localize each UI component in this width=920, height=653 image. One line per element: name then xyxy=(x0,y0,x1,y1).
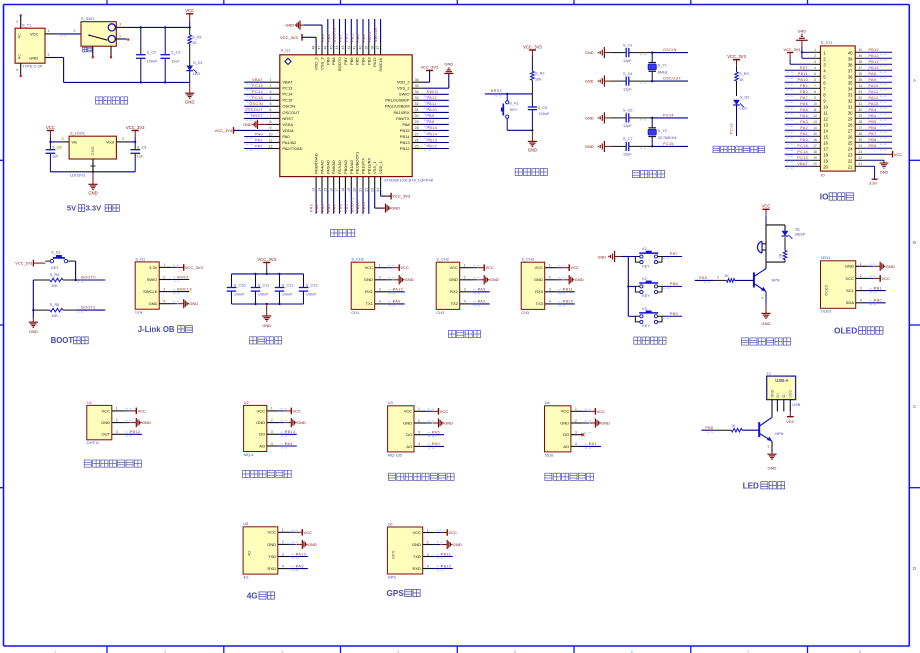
connector U4 xyxy=(545,400,571,457)
svg-text:GND: GND xyxy=(297,420,306,425)
svg-text:4: 4 xyxy=(549,300,551,304)
svg-text:SDA: SDA xyxy=(846,300,855,305)
svg-text:PA11/USBDM: PA11/USBDM xyxy=(385,104,410,109)
T1 bottom pin (unconnected) xyxy=(16,63,21,77)
svg-text:VCC: VCC xyxy=(762,204,771,209)
svg-text:10K: 10K xyxy=(51,314,58,318)
svg-text:43: 43 xyxy=(341,46,345,50)
title 晶振电路 xyxy=(632,170,664,177)
svg-text:28: 28 xyxy=(859,120,863,124)
svg-text:S_R1: S_R1 xyxy=(192,35,202,39)
capacitor S_C10 xyxy=(227,274,246,304)
ground xyxy=(435,540,462,549)
wire node PA10 xyxy=(387,288,405,295)
svg-text:VCC: VCC xyxy=(485,265,494,270)
svg-text:1K: 1K xyxy=(739,78,744,82)
svg-text:VCC: VCC xyxy=(561,409,570,414)
wire node PC13 xyxy=(244,84,266,91)
wire node PB0 xyxy=(868,299,886,306)
svg-text:19: 19 xyxy=(347,188,351,192)
svg-text:34: 34 xyxy=(848,86,853,91)
svg-text:VBAT: VBAT xyxy=(797,162,808,166)
wire node PC14 xyxy=(640,113,688,120)
svg-text:OSCOUT: OSCOUT xyxy=(663,77,682,81)
svg-text:PB1: PB1 xyxy=(345,204,349,212)
svg-text:8: 8 xyxy=(270,120,272,124)
svg-text:36: 36 xyxy=(848,74,853,79)
svg-text:22: 22 xyxy=(859,156,863,160)
svg-text:DHT11: DHT11 xyxy=(87,440,99,445)
title 滤波电路 xyxy=(250,337,282,344)
S_CH3 pin 4 TX3 xyxy=(545,300,565,304)
svg-text:25: 25 xyxy=(848,140,853,145)
svg-text:VCC: VCC xyxy=(894,152,903,157)
title IO拓展口 xyxy=(820,192,854,202)
svg-text:PB12: PB12 xyxy=(400,146,411,151)
svg-text:14: 14 xyxy=(823,128,828,133)
wire node PA4 xyxy=(315,189,322,214)
svg-text:PB11: PB11 xyxy=(798,72,808,76)
wire node PB13 xyxy=(423,138,449,145)
wire reset bottom rail xyxy=(507,129,533,131)
wire node PA2 xyxy=(472,300,490,307)
svg-text:B: B xyxy=(913,240,916,245)
svg-text:3: 3 xyxy=(549,288,551,292)
svg-text:31: 31 xyxy=(859,102,863,106)
svg-text:NC: NC xyxy=(17,54,21,60)
svg-text:100nF: 100nF xyxy=(282,293,293,297)
wire alarm top node xyxy=(766,225,785,244)
wire VDD_1 to VCC_3V3 xyxy=(381,189,411,199)
svg-text:14: 14 xyxy=(318,188,322,192)
ground xyxy=(290,540,317,549)
wire node PC15 xyxy=(244,96,266,103)
svg-text:e: e xyxy=(16,68,18,72)
svg-text:GND: GND xyxy=(391,206,400,211)
svg-text:33: 33 xyxy=(848,92,853,97)
svg-text:OSCIN: OSCIN xyxy=(282,104,295,109)
svg-text:PA1: PA1 xyxy=(255,138,263,142)
svg-text:12pF: 12pF xyxy=(623,124,632,128)
svg-text:PC15: PC15 xyxy=(797,144,808,148)
power VCC xyxy=(279,408,301,415)
wire node PA10 xyxy=(290,552,308,559)
svg-text:PC13: PC13 xyxy=(730,123,734,134)
svg-text:RXD: RXD xyxy=(268,566,277,571)
wire node PB7 xyxy=(662,252,682,259)
svg-text:45: 45 xyxy=(329,46,333,50)
svg-text:24: 24 xyxy=(859,144,863,148)
power VCC (alarm) xyxy=(762,204,771,225)
svg-text:15: 15 xyxy=(813,132,817,136)
key S_K2 xyxy=(45,250,75,270)
svg-text:GND: GND xyxy=(449,277,458,282)
wire node PC13 xyxy=(730,105,737,136)
transistor Q1 NPN xyxy=(754,269,780,292)
svg-text:3: 3 xyxy=(418,431,420,435)
title 主芯片 xyxy=(331,229,355,236)
svg-text:DO: DO xyxy=(259,432,265,437)
svg-text:1: 1 xyxy=(814,48,816,52)
connector U5 xyxy=(243,521,278,579)
wire node PB13 xyxy=(865,54,892,61)
wire node PB7 xyxy=(339,19,346,44)
svg-text:PB3: PB3 xyxy=(362,34,366,42)
svg-text:U5: U5 xyxy=(243,521,248,526)
svg-text:12pF: 12pF xyxy=(623,87,632,91)
svg-text:3: 3 xyxy=(163,287,165,291)
svg-text:J-Link OB: J-Link OB xyxy=(138,325,175,334)
power VCC xyxy=(868,275,890,282)
svg-text:VCC_3V3: VCC_3V3 xyxy=(392,194,411,199)
svg-text:6: 6 xyxy=(270,108,272,112)
svg-text:S_C2: S_C2 xyxy=(147,51,157,55)
wire node PB15 xyxy=(865,66,892,73)
wire LDO GND to rail xyxy=(50,159,135,173)
wire node PB1 xyxy=(345,189,352,214)
svg-text:10: 10 xyxy=(823,104,828,109)
svg-text:PB11: PB11 xyxy=(441,552,451,556)
svg-text:GND: GND xyxy=(285,23,294,28)
wire node PA2 xyxy=(244,144,266,151)
svg-text:7: 7 xyxy=(270,114,272,118)
U4 pin 2 GND xyxy=(571,419,591,423)
title 串口电路 xyxy=(448,330,480,337)
svg-text:S_K1: S_K1 xyxy=(509,102,518,106)
svg-text:TXD: TXD xyxy=(268,554,276,559)
title 5V转3.3V电路 xyxy=(67,204,119,213)
svg-text:PA2: PA2 xyxy=(478,300,486,304)
svg-text:10K: 10K xyxy=(535,77,542,81)
wire node PA9 xyxy=(387,300,405,307)
svg-text:VCC: VCC xyxy=(534,265,543,270)
wire VSS_1 to GND xyxy=(375,189,400,213)
svg-text:GND: GND xyxy=(585,80,594,84)
power VCC xyxy=(583,408,605,415)
wire node PB12 xyxy=(865,48,892,55)
svg-text:VSS_3: VSS_3 xyxy=(320,57,325,70)
power VCC xyxy=(472,264,494,271)
svg-text:PA3: PA3 xyxy=(800,120,808,124)
resistor (alarm LED) xyxy=(779,237,787,262)
svg-text:PA4: PA4 xyxy=(315,204,319,212)
svg-text:PB6: PB6 xyxy=(345,34,349,42)
svg-text:VCC_3V3: VCC_3V3 xyxy=(185,265,204,270)
wire key to BOOT0 row xyxy=(75,261,77,281)
svg-text:VCC: VCC xyxy=(257,408,266,413)
svg-text:PB12: PB12 xyxy=(130,430,141,434)
svg-text:VCC: VCC xyxy=(185,8,194,13)
svg-text:PA5: PA5 xyxy=(432,431,440,435)
svg-text:VCC: VCC xyxy=(293,408,302,413)
svg-text:PA1/AD: PA1/AD xyxy=(282,140,296,145)
wire node PA1 xyxy=(244,138,266,145)
svg-text:15: 15 xyxy=(323,188,327,192)
connector U1 xyxy=(87,400,112,445)
wire node PB9 xyxy=(662,312,682,319)
svg-text:S_ST1: S_ST1 xyxy=(821,40,833,45)
svg-text:PB7: PB7 xyxy=(869,132,877,136)
svg-text:2: 2 xyxy=(74,29,76,33)
svg-text:5516: 5516 xyxy=(545,452,554,457)
svg-text:S_C7: S_C7 xyxy=(623,137,633,141)
svg-text:29: 29 xyxy=(415,120,419,124)
power VCC xyxy=(185,8,194,28)
svg-text:PB11: PB11 xyxy=(563,288,573,292)
wire node PA5 xyxy=(785,108,811,115)
svg-text:2: 2 xyxy=(271,418,273,422)
wire node PA3 xyxy=(309,189,316,214)
svg-text:46: 46 xyxy=(323,46,327,50)
svg-text:RX2: RX2 xyxy=(450,289,459,294)
svg-text:2: 2 xyxy=(418,419,420,423)
svg-text:34: 34 xyxy=(859,84,863,88)
svg-text:K2: K2 xyxy=(642,277,647,281)
wire node BOOT1 xyxy=(76,306,106,313)
svg-text:GND: GND xyxy=(798,30,807,34)
svg-text:VCC_3V3: VCC_3V3 xyxy=(126,125,145,130)
svg-text:VDD_2: VDD_2 xyxy=(397,80,411,85)
svg-text:2: 2 xyxy=(122,137,124,141)
power VCC (USB) xyxy=(786,411,795,423)
U4 pin 4 AO xyxy=(571,442,591,446)
svg-text:3: 3 xyxy=(464,288,466,292)
title 程序运行指示灯 xyxy=(713,146,765,153)
svg-text:2: 2 xyxy=(379,276,381,280)
svg-text:PB1: PB1 xyxy=(800,84,808,88)
svg-text:RX3: RX3 xyxy=(535,289,544,294)
svg-text:1K: 1K xyxy=(731,424,736,428)
connector S_ST1 body xyxy=(820,40,855,177)
svg-text:S_R4: S_R4 xyxy=(50,273,60,277)
svg-text:S_T1: S_T1 xyxy=(22,23,31,28)
svg-text:28: 28 xyxy=(848,122,853,127)
title 光照检测模块 xyxy=(545,473,594,480)
svg-text:D+: D+ xyxy=(776,393,780,398)
U2 pin 2 GND xyxy=(267,418,287,422)
svg-text:GND: GND xyxy=(243,122,252,127)
svg-text:CH3: CH3 xyxy=(521,310,529,315)
power VCC_3V3 (reset) xyxy=(523,44,542,66)
wire node PB8 xyxy=(327,19,334,44)
svg-text:7: 7 xyxy=(814,84,816,88)
svg-text:8: 8 xyxy=(814,90,816,94)
svg-text:8MHz: 8MHz xyxy=(658,71,668,75)
wire filter bottom rail xyxy=(232,303,304,305)
svg-text:42: 42 xyxy=(347,46,351,50)
svg-text:15: 15 xyxy=(823,134,828,139)
svg-text:34: 34 xyxy=(415,90,419,94)
svg-text:PA9: PA9 xyxy=(296,564,304,568)
svg-text:RX1: RX1 xyxy=(365,289,374,294)
capacitor S_C9 xyxy=(130,142,146,172)
svg-text:PB15: PB15 xyxy=(869,66,879,70)
svg-text:GND: GND xyxy=(490,277,499,282)
wire T1 GND down to bottom rail xyxy=(45,53,190,84)
svg-text:NPN: NPN xyxy=(772,279,780,283)
svg-text:VDD_1: VDD_1 xyxy=(378,160,383,174)
svg-text:1: 1 xyxy=(427,528,429,532)
svg-text:PB13: PB13 xyxy=(400,140,411,145)
capacitor S_C2 xyxy=(136,27,158,82)
svg-text:20: 20 xyxy=(813,162,817,166)
svg-text:AO: AO xyxy=(406,444,412,449)
svg-text:VCC: VCC xyxy=(304,530,313,535)
U6 pin 3 TXD xyxy=(423,552,443,556)
wire node PB10 xyxy=(435,564,453,571)
svg-text:21: 21 xyxy=(848,164,853,169)
power VCC_3V3 (VDDA) xyxy=(215,127,267,134)
svg-text:IO: IO xyxy=(821,172,825,177)
svg-text:39: 39 xyxy=(859,54,863,58)
wire node PA8 xyxy=(423,120,449,127)
svg-text:GND: GND xyxy=(403,420,412,425)
svg-text:PA9/TX: PA9/TX xyxy=(396,116,410,121)
wire boot left rail xyxy=(32,280,34,318)
svg-text:26: 26 xyxy=(415,138,419,142)
wire node PA0 xyxy=(244,132,266,139)
wire node OSCOUT xyxy=(640,77,688,84)
connector LED1 xyxy=(821,255,856,313)
wire node PC14 xyxy=(785,150,811,157)
svg-text:PA2: PA2 xyxy=(800,126,808,130)
svg-text:DO: DO xyxy=(563,432,569,437)
key S_K1 (reset button) xyxy=(501,94,519,130)
svg-text:11: 11 xyxy=(813,108,817,112)
wire alarm collector node xyxy=(766,262,785,269)
power VCC xyxy=(290,529,312,536)
ground (header pin22) xyxy=(865,160,888,174)
svg-text:PA4/AD: PA4/AD xyxy=(320,160,325,174)
power VCC_3V3 (header pin3) xyxy=(784,48,811,65)
svg-text:2: 2 xyxy=(163,275,165,279)
svg-text:12pF: 12pF xyxy=(623,59,632,63)
svg-text:GND: GND xyxy=(845,264,854,269)
svg-text:3: 3 xyxy=(379,288,381,292)
svg-text:S_C3: S_C3 xyxy=(171,51,181,55)
svg-text:VCC: VCC xyxy=(46,125,55,130)
svg-text:9: 9 xyxy=(270,126,272,130)
svg-text:PB12: PB12 xyxy=(427,144,438,148)
svg-text:14: 14 xyxy=(813,126,817,130)
svg-text:LED1: LED1 xyxy=(821,255,831,260)
svg-text:31: 31 xyxy=(848,104,853,109)
svg-text:U2: U2 xyxy=(244,400,249,405)
ground xyxy=(185,82,194,104)
wire node PA9 xyxy=(290,564,308,571)
svg-text:TX1: TX1 xyxy=(366,301,374,306)
svg-text:SWCLK: SWCLK xyxy=(177,287,192,291)
svg-text:OSCIN: OSCIN xyxy=(249,102,263,106)
svg-text:PB4: PB4 xyxy=(869,114,877,118)
svg-text:3.3V: 3.3V xyxy=(869,182,877,186)
svg-text:PA1: PA1 xyxy=(800,132,808,136)
SW1 pin 3 wire to VCC rail xyxy=(115,23,189,29)
svg-text:4: 4 xyxy=(163,300,165,304)
wire node PB0 xyxy=(785,90,811,97)
LED1 pin 4 SDA xyxy=(856,299,876,303)
resistor S_R2 xyxy=(531,66,545,94)
svg-text:S_C10: S_C10 xyxy=(234,284,246,288)
wire node SWCLK xyxy=(374,19,381,44)
svg-text:PB7: PB7 xyxy=(343,57,348,65)
svg-text:GND: GND xyxy=(880,171,889,175)
svg-text:PC15: PC15 xyxy=(252,96,263,100)
svg-text:VCC: VCC xyxy=(404,409,413,414)
svg-text:3: 3 xyxy=(271,430,273,434)
ground xyxy=(124,418,151,427)
svg-text:GND: GND xyxy=(585,51,594,55)
wire node PB14 xyxy=(423,132,449,139)
U6 pin 4 RXD xyxy=(423,564,443,568)
wire node PB9 xyxy=(865,144,892,151)
svg-text:GND: GND xyxy=(267,542,276,547)
svg-text:32: 32 xyxy=(859,96,863,100)
svg-text:2: 2 xyxy=(464,276,466,280)
svg-text:41: 41 xyxy=(353,46,357,50)
svg-text:PB4: PB4 xyxy=(356,34,360,42)
svg-text:21: 21 xyxy=(359,188,363,192)
svg-text:PB0: PB0 xyxy=(874,299,882,303)
svg-text:PB13: PB13 xyxy=(285,430,296,434)
wire header pin21 to 3.3V xyxy=(865,166,877,185)
svg-text:2: 2 xyxy=(717,276,719,280)
svg-text:2: 2 xyxy=(48,53,50,57)
svg-text:16: 16 xyxy=(823,140,828,145)
svg-text:3: 3 xyxy=(116,430,118,434)
svg-text:1: 1 xyxy=(270,78,272,82)
svg-text:1: 1 xyxy=(116,407,118,411)
wire node PA1 xyxy=(785,132,811,139)
svg-text:OSCOUT: OSCOUT xyxy=(245,108,264,112)
wire node OSCIN xyxy=(244,102,266,109)
svg-text:PA5/AD: PA5/AD xyxy=(325,160,330,174)
svg-text:4: 4 xyxy=(270,96,272,100)
svg-text:PA8: PA8 xyxy=(402,122,410,127)
wire node PB4 xyxy=(356,19,363,44)
switch S_SW1 xyxy=(81,16,116,46)
svg-text:NRST: NRST xyxy=(282,116,293,121)
svg-text:GND: GND xyxy=(405,277,414,282)
svg-text:S_R3: S_R3 xyxy=(739,72,749,76)
svg-text:4: 4 xyxy=(814,66,816,70)
svg-text:38: 38 xyxy=(859,60,863,64)
svg-text:PB1: PB1 xyxy=(874,286,882,290)
wire node PA12 xyxy=(423,96,449,103)
svg-text:PA9: PA9 xyxy=(869,78,877,82)
svg-text:40: 40 xyxy=(359,46,363,50)
svg-text:1uF: 1uF xyxy=(52,155,59,159)
svg-text:40: 40 xyxy=(848,50,853,55)
svg-text:VCC_3V3: VCC_3V3 xyxy=(727,54,746,59)
buzzer xyxy=(757,241,766,262)
ground xyxy=(528,130,537,152)
crystal S_Y2 xyxy=(648,118,676,147)
svg-text:2: 2 xyxy=(575,419,577,423)
svg-text:SWCLK: SWCLK xyxy=(143,289,158,294)
svg-text:Link: Link xyxy=(135,310,142,315)
svg-text:GND: GND xyxy=(601,421,610,426)
svg-text:VCC: VCC xyxy=(845,276,854,281)
wire node PB11 xyxy=(785,72,811,79)
wire node NRST xyxy=(485,89,533,96)
svg-text:KEY: KEY xyxy=(642,264,650,268)
LED S_D1 xyxy=(186,61,202,82)
svg-text:VBAT: VBAT xyxy=(252,78,263,82)
svg-text:1: 1 xyxy=(271,407,273,411)
wire node PB11 xyxy=(557,288,575,295)
ground xyxy=(767,452,776,471)
